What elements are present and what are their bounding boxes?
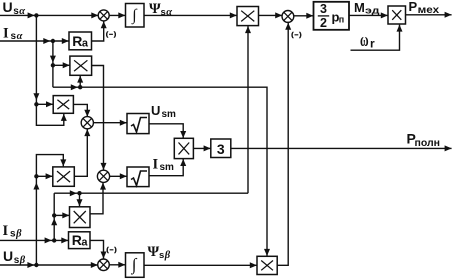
svg-text:2: 2 [320,16,327,30]
summer C1 (U squares adder) [81,117,93,129]
svg-text:β: β [19,255,26,266]
label P_mech [409,0,440,16]
label U_s-alpha [3,0,26,17]
svg-text:3: 3 [217,141,225,157]
multiplier M4 (I_s-beta squared) [70,207,91,228]
wire M6 output up to summer S3 bottom [277,23,291,265]
svg-text:β: β [15,229,22,240]
wire U_s-beta input line [0,262,98,268]
wire U_s-alpha input line [0,12,98,18]
label Psi_s-alpha [149,1,172,18]
svg-text:s: s [14,255,20,266]
label U_s-beta [3,248,26,266]
svg-text:ω: ω [360,30,369,51]
label M_ed [354,0,380,17]
svg-text:β: β [164,250,171,261]
label P_poln [407,131,441,150]
wire V6 U_s-beta branch up to M3 inputs [33,155,66,265]
svg-text:(–): (–) [106,246,117,253]
svg-text:п: п [339,15,344,25]
svg-text:Ψ: Ψ [149,1,161,17]
sqrt block 1 [127,114,149,134]
wire V5 I_s-beta branch up [51,193,69,240]
label I_s-alpha [3,26,23,43]
svg-text:s: s [10,229,16,240]
svg-text:полн: полн [415,137,441,149]
label I_sm [153,156,175,173]
svg-text:a: a [81,237,88,249]
multiplier M1 (I_s-alpha squared) [70,56,92,75]
svg-text:I: I [3,26,9,42]
label minus at S2 [106,246,117,253]
integrator block 1 [126,4,145,28]
wire C2 output to sqrt block 2 [110,173,127,179]
wire M4 output up to summer C2 bottom [90,183,106,214]
label I_s-beta [3,223,23,240]
label U_sm [151,103,176,120]
wire V3 I_s-alpha branch down [50,41,70,87]
summer S3 (torque subtraction) [282,11,294,23]
wire V8 I_s-beta up to M0 bottom [245,26,251,193]
wire V1 U_s-alpha branch down to M2 inputs [33,15,66,125]
wire Psi_s-beta from integrator 2 to M6 [144,262,257,268]
wire S2 to integrator 2 [109,262,125,268]
wire M5 output to gain 3 [194,145,211,151]
wire M2 output down to summer C1 top [73,104,90,116]
wire S1 to integrator 1 [109,12,125,18]
svg-text:М: М [354,0,365,15]
svg-text:U: U [151,103,160,118]
svg-text:эд: эд [365,6,380,17]
multiplier M3 (U_s-beta squared) [53,167,75,186]
svg-text:α: α [17,31,23,42]
svg-text:sm: sm [160,162,175,173]
svg-text:r: r [370,36,375,50]
svg-text:U: U [3,0,13,15]
svg-text:a: a [82,38,89,50]
label minus at S1 [106,31,117,38]
wire C1 output to sqrt block 1 [93,120,126,126]
wire M3 output up to summer C1 bottom [74,129,90,176]
wire Psi_s-alpha from integrator 1 to multiplier M0 [144,12,237,18]
wire S3 output to gain block 3/2 p_p [294,13,314,19]
wire M_ed from gain block to multiplier M7 [349,12,388,18]
multiplier M7 (M_ed x omega_r) [388,6,406,24]
wire U_sm from sqrt1 to M5 top [149,124,186,138]
svg-text:P: P [409,0,418,14]
resistor block R_a2 [69,232,91,249]
svg-text:(–): (–) [106,31,117,38]
gain block 3/2 p_p [314,2,350,30]
svg-text:мех: мех [418,4,440,16]
multiplier M0 (Psi_s-alpha x I_s-beta) [237,7,259,26]
summer C2 (I squares adder) [97,170,109,182]
wire omega_r input to M7 bottom [351,25,403,51]
label Psi_s-beta [148,244,171,261]
svg-text:I: I [153,156,159,172]
multiplier M2 (U_s-alpha squared) [53,96,73,114]
wire P_mech output [406,12,452,18]
wire M1 output down to summer C2 top [92,66,107,170]
svg-text:Ψ: Ψ [148,244,160,260]
svg-text:α: α [166,7,172,18]
wire R_a2 output down to summer S2 [90,240,107,258]
svg-text:I: I [3,223,9,239]
wire P_poln output line [231,145,452,151]
svg-text:s: s [13,6,19,17]
multiplier M5 (U_sm x I_sm) [174,138,193,158]
sqrt block 2 [127,167,149,187]
wire I_s-alpha horizontal bus y87 to M1 bottom and M6 top [53,76,270,256]
svg-text:sm: sm [162,109,177,120]
wire I_s-beta horizontal bus y193 to M4 top and M0 riser [54,190,248,206]
svg-text:U: U [3,248,13,264]
resistor block R_a1 [69,32,92,50]
wire I_s-beta input line [0,237,68,243]
svg-text:s: s [159,250,164,261]
wire I_sm from sqrt2 to M5 bottom [149,159,186,176]
label minus at S3 [291,31,302,38]
wire M0 output to summer S3 [259,12,283,18]
svg-text:3: 3 [320,2,327,16]
svg-text:α: α [19,6,25,17]
wire I_s-alpha input line [0,38,69,44]
svg-text:s: s [11,31,17,42]
label omega_r [360,30,375,51]
gain block 3 [211,139,231,158]
svg-text:(–): (–) [291,31,302,38]
summer S2 (U_s-beta minus R_a I_s-beta) [98,259,110,271]
multiplier M6 (Psi_s-beta x I_s-alpha) [257,256,277,274]
summer S1 (U_s-alpha minus R_a I_s-alpha) [98,10,109,21]
wire R_a1 output up to summer S1 [92,21,107,41]
integrator block 2 [126,253,145,277]
svg-text:s: s [161,7,166,18]
